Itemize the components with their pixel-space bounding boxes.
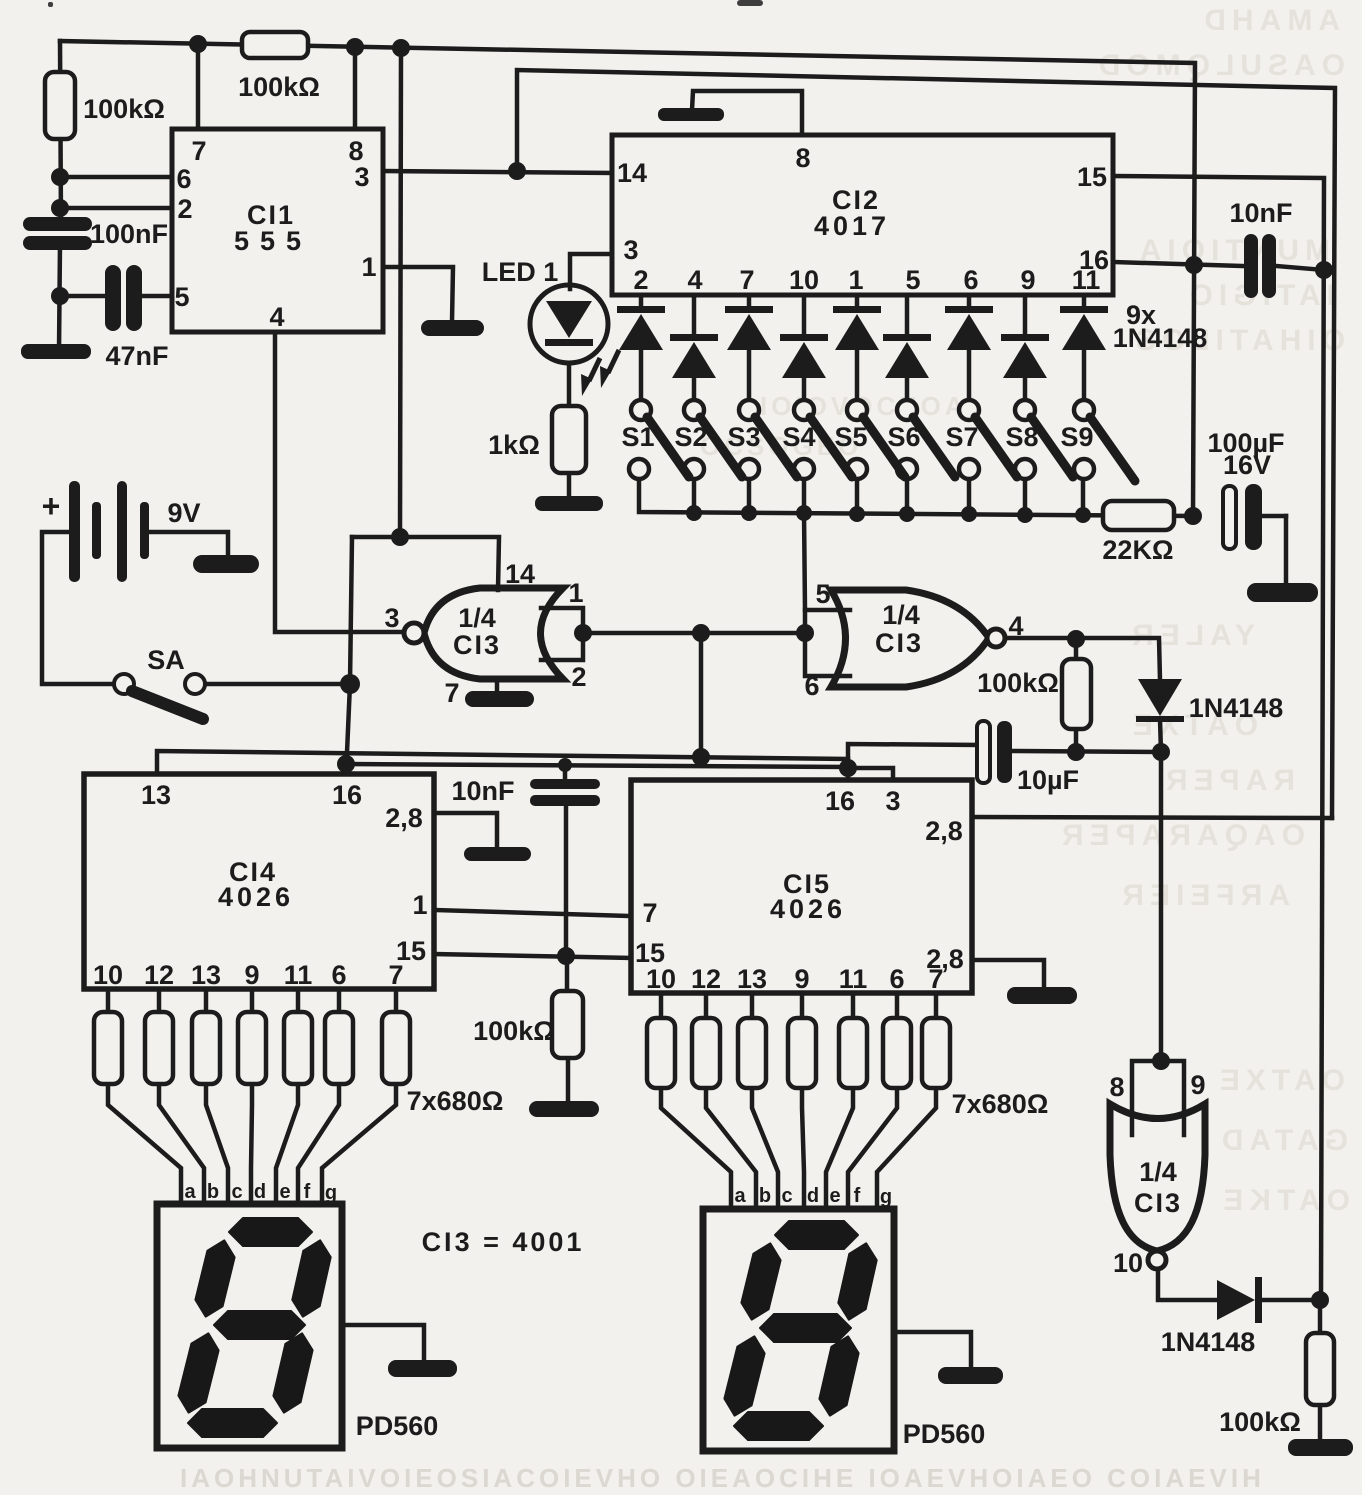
svg-text:47nF: 47nF bbox=[105, 341, 168, 371]
svg-text:1/4: 1/4 bbox=[458, 603, 496, 633]
svg-text:S3: S3 bbox=[727, 422, 760, 452]
svg-text:14: 14 bbox=[617, 158, 647, 188]
svg-text:OATKE: OATKE bbox=[1217, 1184, 1350, 1217]
svg-text:9: 9 bbox=[1020, 265, 1035, 295]
svg-text:7: 7 bbox=[928, 964, 943, 994]
svg-text:16V: 16V bbox=[1223, 450, 1271, 480]
svg-text:S1: S1 bbox=[621, 422, 654, 452]
svg-text:4: 4 bbox=[269, 302, 284, 332]
svg-text:S6: S6 bbox=[887, 422, 920, 452]
svg-text:1N4148: 1N4148 bbox=[1189, 693, 1284, 723]
svg-text:9: 9 bbox=[1190, 1070, 1205, 1100]
svg-text:CI3: CI3 bbox=[875, 628, 923, 658]
svg-text:100kΩ: 100kΩ bbox=[238, 72, 320, 102]
svg-text:555: 555 bbox=[234, 226, 312, 256]
svg-text:100kΩ: 100kΩ bbox=[83, 94, 165, 124]
svg-text:c: c bbox=[781, 1185, 792, 1207]
svg-text:9V: 9V bbox=[167, 498, 200, 528]
svg-text:6: 6 bbox=[963, 265, 978, 295]
svg-text:2,8: 2,8 bbox=[385, 803, 423, 833]
svg-text:6: 6 bbox=[804, 671, 819, 701]
svg-text:5: 5 bbox=[905, 265, 920, 295]
svg-text:2: 2 bbox=[571, 662, 586, 692]
svg-text:15: 15 bbox=[1077, 162, 1107, 192]
svg-text:GATAD: GATAD bbox=[1216, 1124, 1348, 1157]
svg-text:1: 1 bbox=[361, 252, 376, 282]
svg-text:g: g bbox=[325, 1182, 337, 1204]
svg-text:S7: S7 bbox=[945, 422, 978, 452]
svg-text:b: b bbox=[207, 1181, 219, 1203]
svg-text:10: 10 bbox=[789, 265, 819, 295]
svg-text:7: 7 bbox=[444, 678, 459, 708]
svg-text:CI3: CI3 bbox=[1134, 1188, 1182, 1218]
svg-text:d: d bbox=[807, 1185, 819, 1207]
svg-text:d: d bbox=[254, 1181, 266, 1203]
svg-text:4017: 4017 bbox=[814, 211, 890, 241]
svg-text:13: 13 bbox=[191, 960, 221, 990]
svg-text:1: 1 bbox=[412, 890, 427, 920]
svg-text:11: 11 bbox=[839, 964, 868, 994]
svg-text:+: + bbox=[42, 488, 61, 524]
svg-text:1kΩ: 1kΩ bbox=[488, 430, 540, 460]
svg-text:7: 7 bbox=[642, 898, 657, 928]
svg-text:22KΩ: 22KΩ bbox=[1102, 535, 1173, 565]
svg-text:100nF: 100nF bbox=[90, 219, 168, 249]
svg-text:10nF: 10nF bbox=[451, 776, 514, 806]
svg-text:3: 3 bbox=[623, 235, 638, 265]
svg-text:OAQARAPER: OAQARAPER bbox=[1056, 819, 1305, 852]
svg-text:1: 1 bbox=[568, 578, 583, 608]
svg-text:PD560: PD560 bbox=[903, 1419, 986, 1449]
svg-text:3: 3 bbox=[384, 603, 399, 633]
svg-text:7x680Ω: 7x680Ω bbox=[407, 1086, 504, 1116]
svg-text:c: c bbox=[231, 1181, 242, 1203]
svg-text:13: 13 bbox=[141, 780, 171, 810]
svg-text:e: e bbox=[279, 1181, 290, 1203]
svg-text:1/4: 1/4 bbox=[882, 600, 920, 630]
svg-text:3: 3 bbox=[885, 786, 900, 816]
svg-text:5: 5 bbox=[815, 579, 830, 609]
svg-text:S8: S8 bbox=[1005, 422, 1038, 452]
svg-text:4: 4 bbox=[687, 265, 702, 295]
svg-text:9: 9 bbox=[244, 960, 259, 990]
svg-text:S9: S9 bbox=[1060, 422, 1093, 452]
svg-text:10: 10 bbox=[93, 960, 123, 990]
svg-text:7x680Ω: 7x680Ω bbox=[952, 1089, 1049, 1119]
svg-text:SA: SA bbox=[147, 645, 185, 675]
svg-text:10nF: 10nF bbox=[1229, 198, 1292, 228]
svg-text:11: 11 bbox=[1072, 265, 1101, 295]
svg-text:1N4148: 1N4148 bbox=[1161, 1327, 1256, 1357]
svg-text:4026: 4026 bbox=[218, 882, 294, 912]
svg-text:100kΩ: 100kΩ bbox=[977, 668, 1059, 698]
svg-text:100kΩ: 100kΩ bbox=[473, 1016, 555, 1046]
svg-text:16: 16 bbox=[332, 780, 362, 810]
svg-text:2,8: 2,8 bbox=[925, 816, 963, 846]
svg-text:7: 7 bbox=[191, 136, 206, 166]
svg-text:LED 1: LED 1 bbox=[482, 257, 559, 287]
svg-text:RAPER: RAPER bbox=[1160, 764, 1295, 797]
svg-text:a: a bbox=[184, 1181, 196, 1203]
svg-text:IATIGIO: IATIGIO bbox=[1184, 279, 1335, 312]
svg-text:10µF: 10µF bbox=[1017, 765, 1079, 795]
svg-text:OATXE: OATXE bbox=[1214, 1064, 1345, 1097]
svg-text:1/4: 1/4 bbox=[1139, 1157, 1177, 1187]
svg-text:YALER: YALER bbox=[1126, 619, 1255, 652]
svg-text:100kΩ: 100kΩ bbox=[1219, 1407, 1301, 1437]
svg-text:5: 5 bbox=[174, 282, 189, 312]
svg-text:f: f bbox=[304, 1181, 311, 1203]
svg-text:4: 4 bbox=[1008, 611, 1023, 641]
svg-text:OASULQMOD: OASULQMOD bbox=[1093, 49, 1345, 82]
svg-text:2: 2 bbox=[633, 265, 648, 295]
svg-text:CI3: CI3 bbox=[453, 630, 501, 660]
svg-text:S5: S5 bbox=[834, 422, 867, 452]
svg-text:8: 8 bbox=[795, 143, 810, 173]
svg-text:CI3 = 4001: CI3 = 4001 bbox=[422, 1227, 585, 1257]
svg-text:12: 12 bbox=[144, 960, 174, 990]
svg-text:16: 16 bbox=[825, 786, 855, 816]
svg-text:IAOHNUTAIVOIEOSIACOIEVHO OIEAO: IAOHNUTAIVOIEOSIACOIEVHO OIEAOCIHE IOAEV… bbox=[180, 1463, 1265, 1493]
svg-text:10: 10 bbox=[1113, 1248, 1143, 1278]
svg-text:AMAHD: AMAHD bbox=[1198, 4, 1340, 37]
svg-text:1N4148: 1N4148 bbox=[1113, 323, 1208, 353]
svg-text:b: b bbox=[759, 1185, 771, 1207]
svg-text:6: 6 bbox=[331, 960, 346, 990]
svg-text:ARFEIER: ARFEIER bbox=[1116, 879, 1290, 912]
svg-text:PD560: PD560 bbox=[356, 1411, 439, 1441]
svg-text:9: 9 bbox=[794, 964, 809, 994]
svg-text:12: 12 bbox=[691, 964, 721, 994]
svg-text:S4: S4 bbox=[782, 422, 815, 452]
svg-text:14: 14 bbox=[505, 559, 535, 589]
svg-text:6: 6 bbox=[889, 964, 904, 994]
svg-text:f: f bbox=[854, 1185, 861, 1207]
svg-text:10: 10 bbox=[646, 964, 676, 994]
svg-text:7: 7 bbox=[739, 265, 754, 295]
svg-text:7: 7 bbox=[388, 960, 403, 990]
svg-text:6: 6 bbox=[176, 164, 191, 194]
svg-text:1: 1 bbox=[848, 265, 863, 295]
svg-text:4026: 4026 bbox=[770, 894, 846, 924]
svg-text:3: 3 bbox=[354, 162, 369, 192]
svg-text:a: a bbox=[734, 1185, 746, 1207]
svg-text:11: 11 bbox=[284, 960, 313, 990]
svg-text:S2: S2 bbox=[674, 422, 707, 452]
svg-text:13: 13 bbox=[737, 964, 767, 994]
svg-text:g: g bbox=[880, 1186, 892, 1208]
svg-text:2: 2 bbox=[177, 194, 192, 224]
svg-text:8: 8 bbox=[1109, 1072, 1124, 1102]
svg-text:e: e bbox=[829, 1185, 840, 1207]
